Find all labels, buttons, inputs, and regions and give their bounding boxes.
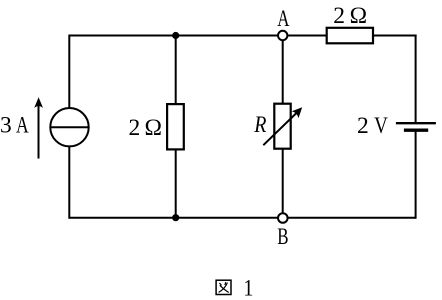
svg-text:2: 2: [333, 3, 345, 29]
resistor R2 2ohm horizontal: [327, 28, 373, 44]
wire bottom: [69, 217, 415, 219]
svg-text:V: V: [374, 112, 388, 138]
wire top: 2ohm resistor to right corner: [373, 35, 417, 37]
svg-text:Ω: Ω: [350, 3, 367, 29]
battery V1 long plate: [396, 122, 436, 124]
wire top: left node to 2ohm resistor: [69, 35, 326, 37]
wire left upper: [68, 35, 70, 109]
current direction arrow: [38, 105, 40, 159]
wire right upper: [415, 35, 417, 123]
svg-text:A: A: [16, 112, 29, 138]
svg-text:R: R: [253, 111, 266, 137]
svg-text:A: A: [277, 6, 289, 31]
svg-text:1: 1: [243, 275, 253, 300]
wire branch R upper: [282, 36, 284, 104]
wire branch 2ohm upper: [175, 36, 177, 105]
svg-text:B: B: [277, 225, 288, 250]
svg-text:3: 3: [0, 113, 12, 139]
svg-text:2: 2: [357, 113, 369, 139]
variable resistor arrow: [263, 112, 297, 145]
current source I1 circle: [50, 108, 88, 146]
node B terminal: [278, 213, 288, 223]
svg-text:Ω: Ω: [145, 115, 162, 141]
battery V1 short plate: [404, 128, 428, 131]
junction node top: [172, 32, 179, 39]
wire branch 2ohm lower: [175, 149, 177, 217]
node A terminal: [278, 31, 287, 40]
resistor R1 2ohm vertical: [167, 104, 184, 149]
wire right lower: [415, 131, 417, 219]
caption zu glyph: [216, 280, 231, 294]
junction node bottom: [172, 214, 179, 221]
wire left lower: [68, 146, 70, 219]
svg-text:2: 2: [129, 115, 141, 141]
wire branch R lower: [282, 149, 284, 218]
variable resistor R: [274, 104, 290, 149]
current source I1 bar: [50, 126, 88, 128]
